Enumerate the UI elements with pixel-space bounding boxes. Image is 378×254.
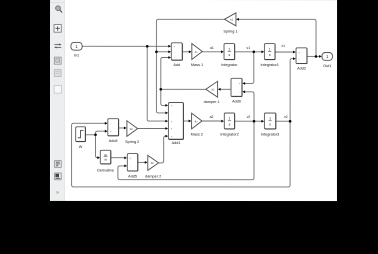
svg-text:-: - [174,57,175,60]
svg-text:1: 1 [269,117,271,121]
arrowhead Add in1 [168,45,171,48]
svg-text:-: - [239,91,240,94]
junction on In1 wire [146,45,149,48]
step source W [76,127,86,142]
svg-text:Add5: Add5 [128,174,137,178]
svg-text:dt: dt [104,158,107,162]
wire Add4 to Spring 2 [119,127,124,129]
svg-text:damper 2: damper 2 [145,174,161,178]
arrowhead Integrator3 in [261,120,264,123]
svg-text:damper 1: damper 1 [204,100,220,104]
svg-text:Derivative: Derivative [97,169,114,173]
svg-text:b1: b1 [212,87,215,91]
arrowhead Integrator2 in [221,120,224,123]
junction x2 [289,120,292,123]
arrowhead Add4 in2 [105,130,108,133]
gain Spring 1 (mirrored) [224,13,236,26]
svg-text:Mass 2: Mass 2 [191,132,203,136]
wire In1 to Add [82,45,168,47]
sum block Add0 (mirrored) [231,78,242,96]
svg-text:du: du [104,153,108,157]
svg-text:Integrator: Integrator [221,63,238,67]
svg-text:Add2: Add2 [297,67,306,71]
wire Add2 output feedback up to Spring 1 [239,19,316,56]
arrowhead Mass 1 in [189,50,192,53]
outport Out1 [322,53,332,61]
arrowhead Spring 1 in (left) [236,18,239,21]
toolbar icon stamp [55,173,62,180]
sum block Add2 [296,48,307,64]
wire Add5 to damper 2 [138,161,145,163]
wire Spring1 branch to Add in2 [156,51,168,53]
gain Mass 2 [192,113,202,129]
wire Mass 1 to Integrator (a1) [202,51,221,53]
arrowhead Add0 in2 (left) [242,90,245,93]
wire damper1 branch up to Add in3 [161,57,169,89]
wire v2 to Add0 in2 and down to Add5 in2 [118,92,254,180]
sum block Add1 [168,102,183,139]
wire Integrator2 to Integrator3 (v2) [235,120,262,122]
svg-text:Add4: Add4 [109,139,118,143]
wire Add0 to damper 1 [220,88,231,90]
svg-text:1: 1 [228,47,230,51]
arrowhead Add1 in2 [165,111,168,114]
wire W branch down to Derivative [95,135,97,158]
svg-text:x1: x1 [281,44,285,48]
junction Spring1 branch at Add in2 [155,50,158,53]
svg-text:-: - [299,58,300,61]
wire In1 branch to Add1 in3 [147,46,165,121]
arrowhead damper 2 in [145,161,148,164]
wire v1 branch to Add0 in1 [245,52,254,84]
wire Integrator3 to x2 junction [276,120,290,122]
arrowhead Add4 in1 [105,122,108,125]
svg-text:1: 1 [269,47,271,51]
integrator Integrator [224,44,235,60]
derivative block Derivative [100,150,111,164]
wire damper 1 output to junction [161,88,206,90]
svg-text:v2: v2 [247,115,251,119]
wire Integrator to Integrator1 (v1) [235,51,262,53]
svg-text:-: - [130,165,131,168]
svg-text:-: - [171,112,172,115]
toolbar icon disabled [54,70,61,77]
toolbar icon subsystem [54,57,61,64]
arrowhead Integrator in [221,50,224,53]
junction v2 [253,120,256,123]
wire Add to Mass 1 [182,51,189,53]
svg-text:-: - [174,51,175,54]
wire Derivative to Add5 [111,157,125,159]
inport In1 [71,42,82,50]
svg-text:x2: x2 [284,115,288,119]
wire Mass 2 to Integrator2 (a2) [202,120,222,122]
junction W output [94,133,97,136]
arrowhead Add1 in5 [165,135,168,138]
svg-text:-: - [110,122,111,125]
wire Spring 1 output down to Add1 in2 [156,19,224,113]
integrator Integrator3 [264,113,276,129]
junction v1 [253,51,256,54]
svg-text:Integrator3: Integrator3 [261,132,279,136]
arrowhead Add1 in3 [165,120,168,123]
svg-text:a2: a2 [210,115,214,119]
junction damper1 branch [160,88,163,91]
toolbar icon swap-arrows [54,43,61,48]
svg-text:Add: Add [173,63,180,67]
arrowhead damper 1 in (left) [218,88,221,91]
arrowhead Add0 in1 (left) [242,82,245,85]
arrowhead Add1 in1 [165,104,168,107]
arrowhead Add2 in1 [293,51,296,54]
integrator Integrator1 [264,44,275,60]
svg-text:-K-: -K- [194,119,198,123]
left toolbar strip [50,0,65,201]
svg-text:W: W [79,145,83,149]
wire damper1 branch down to Add1 in1 [161,89,166,105]
arrowhead Add1 in4 [165,127,168,130]
sum block Add5 [127,154,138,172]
gain Mass 1 [192,44,203,60]
toolbar icon zoom [56,6,62,13]
arrowhead Out1 in [319,55,322,58]
svg-text:s: s [228,53,230,57]
svg-text:Spring 1: Spring 1 [223,29,237,33]
arrowhead Mass 2 in [189,120,192,123]
wire Add2 to Out1 [307,55,319,57]
svg-text:k2: k2 [130,127,133,131]
canvas panel [50,0,337,201]
svg-text:1: 1 [229,117,231,121]
arrowhead Add in2 [168,50,171,53]
arrowhead Derivative in [97,156,100,159]
svg-text:Add1: Add1 [172,141,181,145]
gain damper 2 [148,155,159,170]
sum block Add [171,43,182,61]
arrowhead Spring 2 in [124,127,127,130]
wire W branch up to Add4 in2 [95,131,105,135]
svg-text:v1: v1 [247,46,251,50]
svg-text:Mass 1: Mass 1 [191,63,203,67]
svg-text:Integrator2: Integrator2 [220,132,238,136]
wire Spring 2 to Add1 in4 [138,127,166,129]
svg-text:Add0: Add0 [232,100,241,104]
arrowhead Add5 in1 [124,156,127,159]
toolbar icon fit-view [54,25,61,33]
integrator Integrator2 [224,113,234,129]
gain Spring 2 [127,121,138,137]
wire x2 bottom feedback loop to Add4 in1 [72,121,291,187]
arrowhead Add in3 [168,56,171,59]
wire Add1 to Mass 2 [184,120,189,122]
svg-text:b2: b2 [151,161,154,165]
svg-text:Integrator1: Integrator1 [261,63,279,67]
junction after Add2 [315,55,318,58]
wire Integrator1 to Add2 (x1) [275,51,293,53]
svg-text:s: s [269,53,271,57]
arrowhead Add5 in2 [124,164,127,167]
svg-text:s: s [269,122,271,126]
toolbar icon annotate [55,161,62,168]
svg-text:a1: a1 [210,46,214,50]
svg-text:k1: k1 [230,17,233,21]
wire W to junction [85,134,95,136]
svg-text:-K-: -K- [194,50,198,54]
svg-text:Out1: Out1 [323,64,331,68]
arrowhead Add2 in2 [293,57,296,60]
sum block Add4 [108,119,119,136]
gain damper 1 (mirrored) [206,81,218,97]
svg-text:Spring 2: Spring 2 [125,140,139,144]
wire x2 up to Add2 in2 [290,59,293,122]
arrowhead Integrator1 in [261,50,264,53]
wire damper 2 up to Add1 in5 [159,136,166,163]
toolbar icon empty-box [54,86,61,94]
svg-text:s: s [229,122,231,126]
svg-text:In1: In1 [74,54,79,58]
svg-text:»: » [56,190,59,196]
